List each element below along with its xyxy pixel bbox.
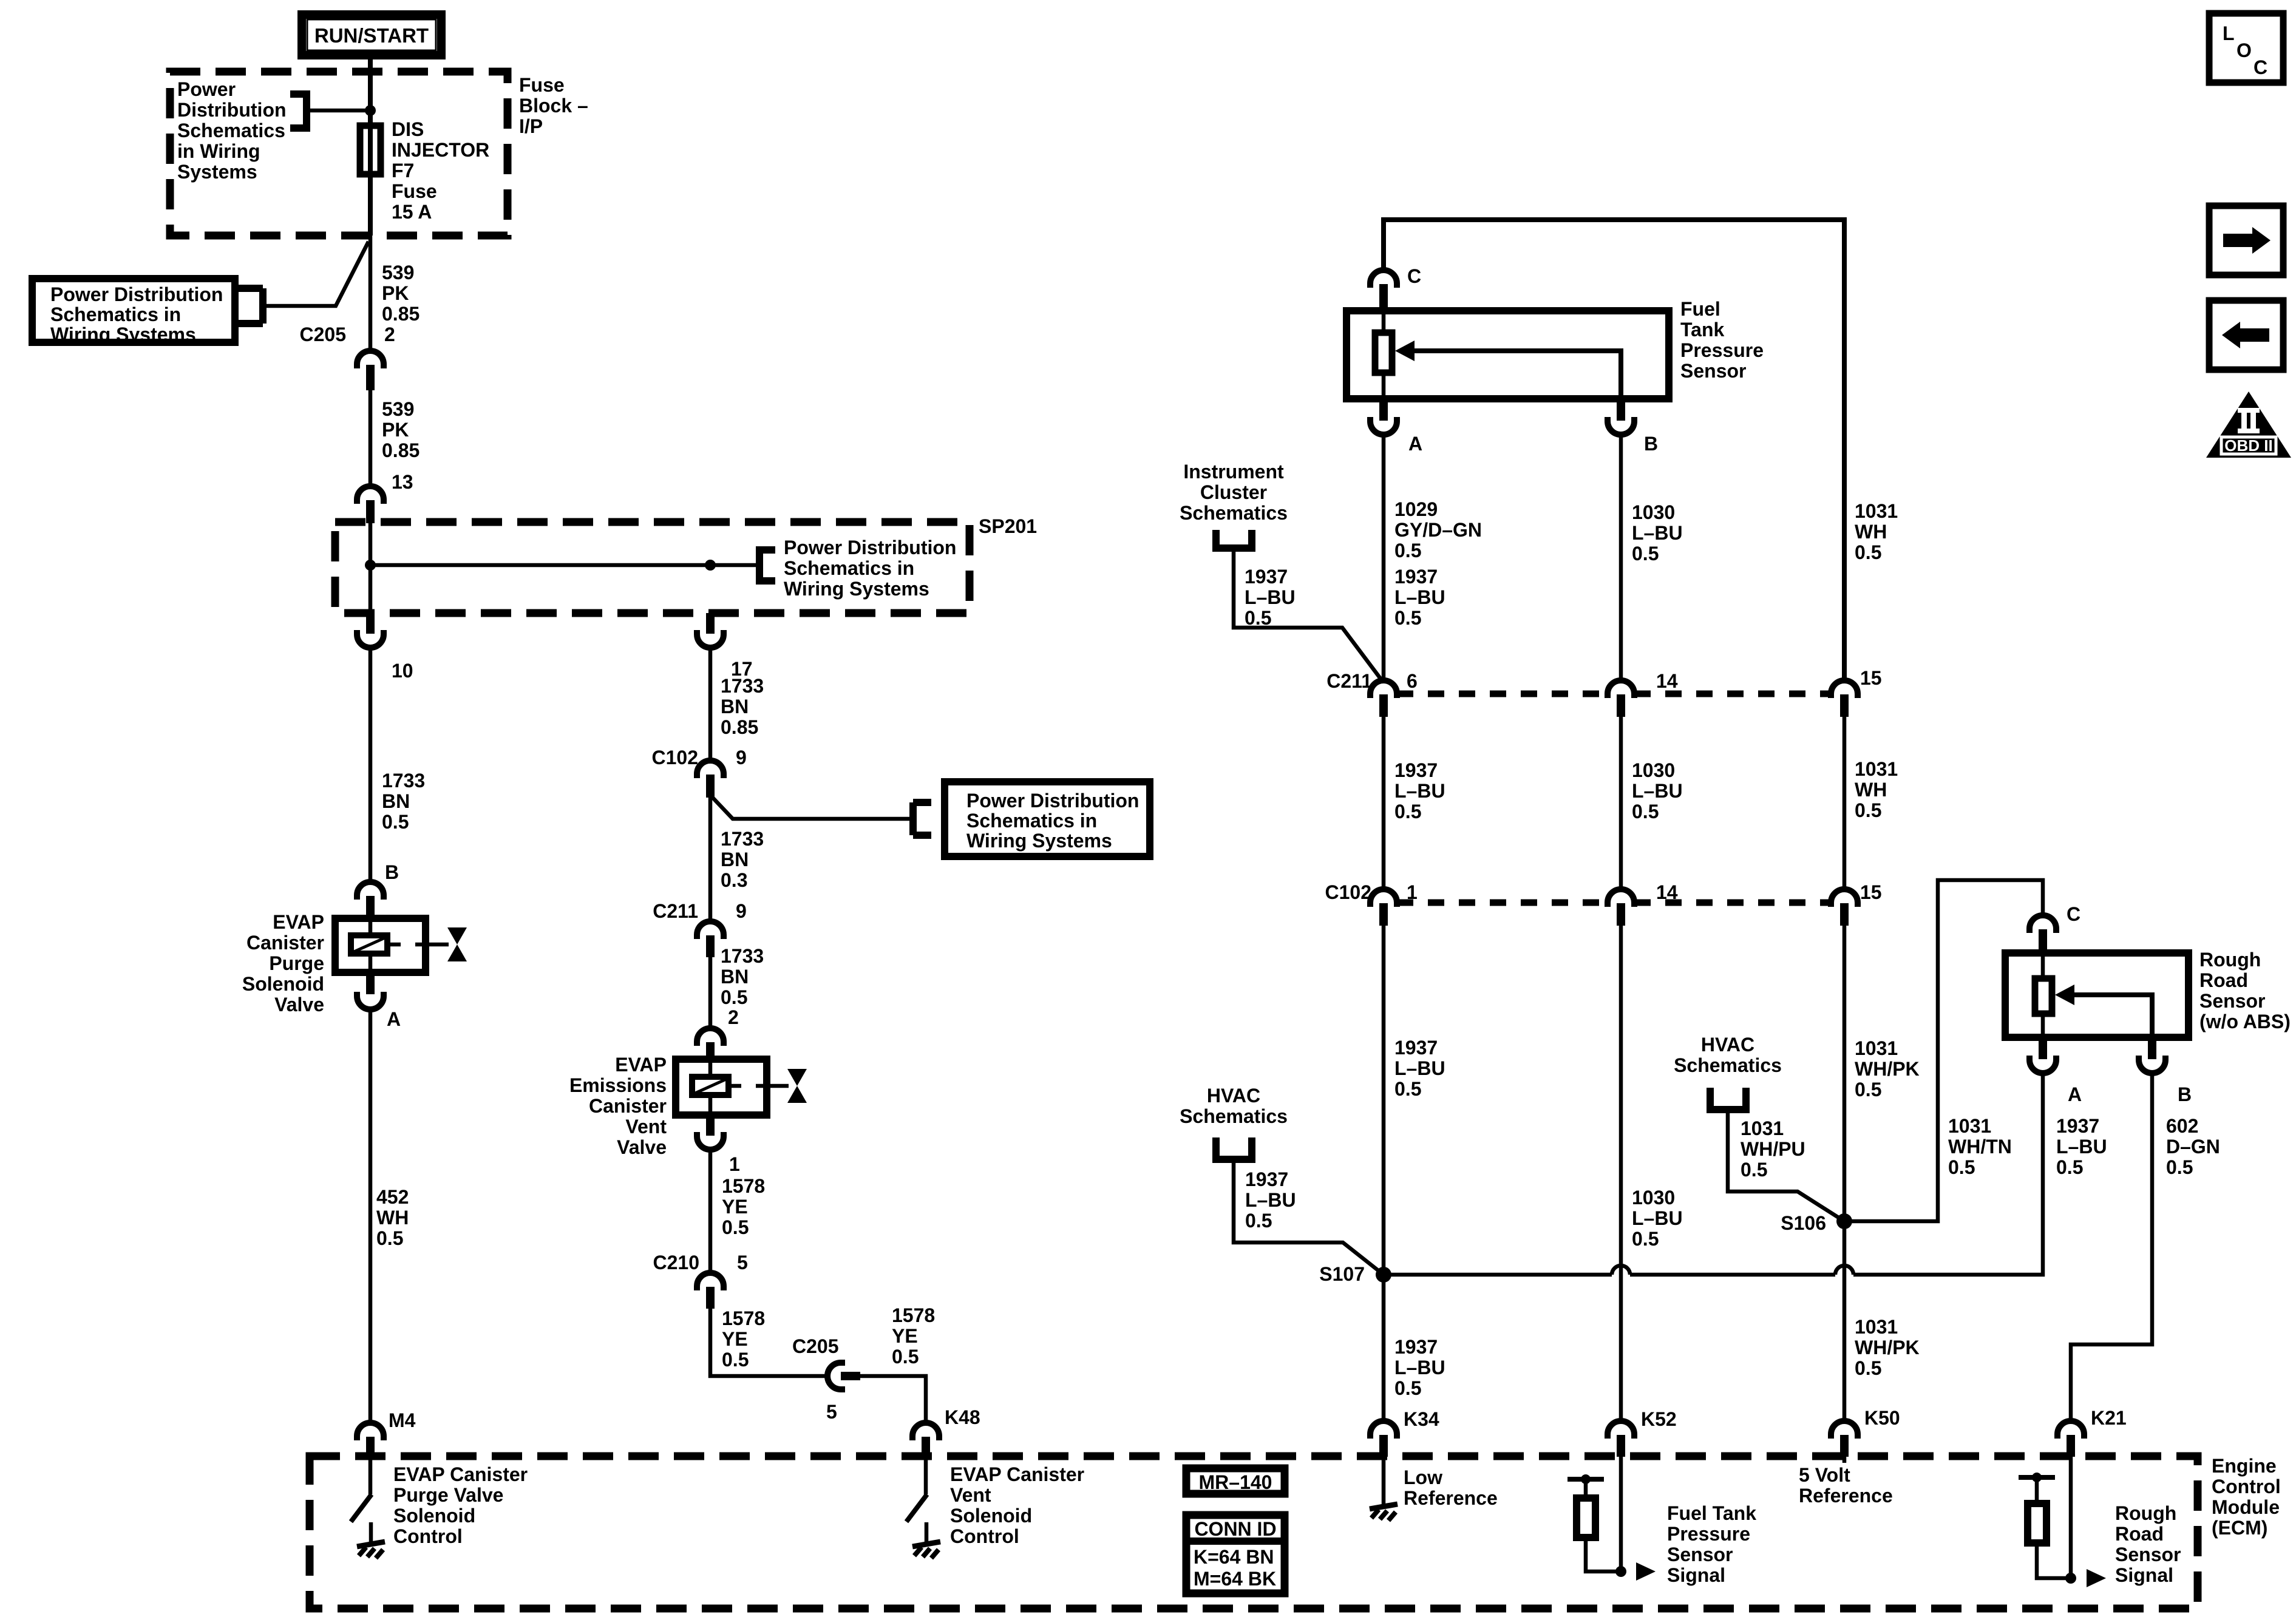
svg-text:0.85: 0.85 (382, 303, 419, 325)
svg-text:K21: K21 (2091, 1407, 2127, 1429)
svg-text:Low: Low (1404, 1466, 1442, 1488)
label 1937 L-BU 0.5 (below C211) (1394, 759, 1445, 822)
valve symbol (purge valve) (447, 927, 467, 961)
svg-text:MR–140: MR–140 (1199, 1471, 1272, 1493)
wire from RUN/START into Fuse Block (368, 55, 373, 126)
svg-text:K34: K34 (1404, 1408, 1439, 1430)
label Fuel Tank Pressure Sensor Signal (1667, 1502, 1756, 1586)
svg-text:Pressure: Pressure (1680, 339, 1764, 361)
svg-text:C211: C211 (1326, 670, 1372, 692)
svg-text:0.5: 0.5 (1855, 541, 1881, 563)
svg-text:0.85: 0.85 (382, 439, 419, 461)
connector C102 (middle column) (697, 761, 724, 798)
svg-text:GY/D–GN: GY/D–GN (1394, 519, 1482, 541)
connector pin 17 out of SP201 (middle column) (697, 613, 724, 648)
svg-text:1578: 1578 (892, 1304, 935, 1326)
svg-text:Vent: Vent (950, 1484, 991, 1506)
EVAP canister purge solenoid valve (335, 918, 449, 972)
label 1937 L-BU 0.5 (HVAC branch) (1245, 1168, 1296, 1232)
svg-text:Schematics: Schematics (1180, 1105, 1288, 1127)
wire into splice (369, 523, 373, 613)
valve symbol (vent valve) (787, 1069, 807, 1103)
svg-text:15 A: 15 A (392, 201, 432, 223)
svg-text:C210: C210 (653, 1252, 700, 1273)
svg-text:1733: 1733 (721, 828, 764, 850)
wire 1937 L-BU 0.5 from S107 to rough road sensor A (with hops) (1384, 1074, 2043, 1275)
label 1733 BN 0.3 (721, 828, 764, 891)
sensor rough road sensor (w/o ABS) (2005, 953, 2189, 1037)
wire 1578 YE 0.5 from C205 to K48 (860, 1376, 926, 1422)
label 1030 L-BU 0.5 (above C211) (1632, 501, 1683, 564)
svg-text:C: C (2067, 903, 2080, 925)
svg-text:HVAC: HVAC (1207, 1085, 1260, 1107)
label Rough Road Sensor (w/o ABS) (2199, 949, 2291, 1032)
svg-text:(w/o ABS): (w/o ABS) (2199, 1011, 2291, 1032)
svg-text:Schematics in: Schematics in (966, 810, 1097, 832)
svg-text:PK: PK (382, 419, 409, 441)
svg-text:Wiring Systems: Wiring Systems (50, 324, 196, 345)
svg-text:9: 9 (736, 747, 747, 768)
svg-text:WH: WH (1855, 779, 1887, 801)
node signal junction (K52) (1615, 1566, 1626, 1577)
svg-text:Sensor: Sensor (2199, 990, 2265, 1012)
svg-text:Canister: Canister (589, 1095, 667, 1117)
switch EVAP canister purge valve solenoid control (ECM driver) (351, 1457, 372, 1522)
svg-text:Instrument: Instrument (1183, 461, 1284, 483)
svg-text:Power Distribution: Power Distribution (50, 283, 223, 305)
wire 1937 L-BU 0.5 from S107 to K34 (1382, 1275, 1386, 1419)
svg-text:BN: BN (382, 790, 410, 812)
arrow fuel tank pressure sensor signal (1636, 1562, 1656, 1581)
wire 1030 L-BU 0.5 from C102 to K52 (1619, 922, 1623, 1419)
ground (ECM internal, purge driver) (357, 1522, 385, 1558)
connector pin M4 (ECM) (357, 1423, 384, 1457)
svg-text:Purge Valve: Purge Valve (393, 1484, 503, 1506)
svg-text:0.5: 0.5 (1632, 543, 1659, 564)
svg-text:0.5: 0.5 (2056, 1156, 2083, 1178)
label 1031 WH 0.5 (below C211) (1855, 758, 1898, 821)
svg-text:SP201: SP201 (979, 515, 1037, 537)
reference bracket (power distribution box) (238, 288, 263, 324)
svg-text:EVAP Canister: EVAP Canister (393, 1463, 528, 1485)
svg-text:PK: PK (382, 282, 409, 304)
svg-text:0.5: 0.5 (1245, 607, 1271, 629)
svg-text:B: B (1644, 433, 1658, 455)
svg-text:Valve: Valve (617, 1136, 667, 1158)
label 1030 L-BU 0.5 (below C102) (1632, 1187, 1683, 1250)
arrow rough road sensor signal (2087, 1569, 2106, 1587)
wire splice horizontal (370, 563, 759, 568)
svg-text:1937: 1937 (1394, 1336, 1438, 1358)
label 1031 WH/PU 0.5 (1741, 1117, 1805, 1181)
fuse block I/P dashed box (170, 72, 508, 236)
svg-text:1937: 1937 (1394, 1037, 1438, 1059)
svg-text:Schematics: Schematics (1180, 502, 1288, 524)
svg-text:Wiring Systems: Wiring Systems (784, 578, 929, 600)
engine control module ECM dashed box (310, 1456, 2198, 1609)
svg-text:A: A (2068, 1083, 2082, 1105)
wire diagonal branch to power distribution bracket (C102) (710, 795, 913, 819)
connector pin K50 (ECM) (1831, 1421, 1858, 1457)
connector pin C (FTPS) (1370, 270, 1397, 307)
svg-text:C205: C205 (792, 1335, 839, 1357)
label 539 PK 0.85 (lower) (382, 398, 419, 461)
node Power Distribution Schematics in Wiring Systems box (32, 279, 235, 345)
svg-text:2: 2 (384, 324, 395, 345)
connector pin 13 into SP201 (357, 486, 384, 523)
fuse F7 DIS INJECTOR 15A (360, 126, 381, 174)
svg-text:C: C (2254, 56, 2267, 78)
svg-text:1937: 1937 (1245, 1168, 1288, 1190)
svg-text:1733: 1733 (721, 675, 764, 697)
svg-text:A: A (387, 1008, 401, 1030)
svg-text:EVAP Canister: EVAP Canister (950, 1463, 1084, 1485)
label 1031 WH/TN 0.5 (1948, 1115, 2012, 1178)
svg-text:S106: S106 (1781, 1212, 1826, 1234)
connector C205 (column 1) (357, 351, 384, 390)
svg-text:F7: F7 (392, 160, 414, 181)
connector pin K34 (ECM) (1370, 1421, 1397, 1457)
svg-text:C205: C205 (300, 324, 347, 345)
resistor (ECM pull-up, fuel tank pressure) (1567, 1474, 1621, 1571)
node arrow right legend box (2209, 206, 2283, 275)
wire 1031 WH/PK 0.5 from S106 to K50 (1843, 1221, 1847, 1419)
svg-text:Schematics: Schematics (177, 120, 285, 141)
reference bracket instrument cluster (1216, 530, 1252, 548)
svg-text:RUN/START: RUN/START (314, 24, 429, 47)
svg-text:Fuel Tank: Fuel Tank (1667, 1502, 1756, 1524)
svg-text:Rough: Rough (2199, 949, 2261, 971)
svg-text:Schematics: Schematics (1674, 1054, 1782, 1076)
svg-text:Vent: Vent (625, 1116, 667, 1137)
connector C102 pin 1 glyph (1370, 889, 1397, 926)
label 5 Volt Reference (1799, 1464, 1893, 1507)
wire 1733 BN 0.3 from C102 to C211 (708, 795, 713, 921)
svg-text:2: 2 (728, 1006, 739, 1028)
label 1937 L-BU 0.5 (RRS A) (2056, 1115, 2107, 1178)
svg-text:Power: Power (177, 78, 236, 100)
wire 1937 L-BU 0.5 from instrument cluster to C211 (1234, 548, 1382, 681)
svg-text:1937: 1937 (1245, 566, 1288, 588)
svg-text:EVAP: EVAP (615, 1054, 667, 1076)
svg-text:B: B (2178, 1083, 2192, 1105)
connector pin A (purge valve) (357, 972, 384, 1009)
wire diagonal branch to power distribution bracket (263, 242, 369, 306)
svg-text:1937: 1937 (1394, 759, 1438, 781)
svg-text:in Wiring: in Wiring (177, 140, 260, 162)
svg-text:Systems: Systems (177, 161, 257, 183)
svg-text:1937: 1937 (2056, 1115, 2099, 1137)
wire 1031 WH/PU 0.5 from HVAC to S106 (1728, 1110, 1844, 1221)
wire from S106 to rough road sensor C (1844, 880, 2043, 1221)
svg-text:0.5: 0.5 (721, 986, 747, 1008)
svg-text:L–BU: L–BU (1632, 522, 1683, 544)
svg-text:0.5: 0.5 (1855, 1079, 1881, 1100)
node arrow left legend box (2209, 300, 2283, 370)
svg-text:1: 1 (729, 1153, 740, 1175)
reference bracket HVAC left (1216, 1137, 1252, 1159)
label 1030 L-BU 0.5 (below C211) (1632, 759, 1683, 822)
label Engine Control Module (ECM) (2212, 1455, 2281, 1539)
svg-text:L–BU: L–BU (1245, 586, 1296, 608)
wire 602 D-GN 0.5 from RRS B to K21 (2071, 1074, 2152, 1419)
svg-text:C102: C102 (1325, 881, 1372, 903)
connector pin A (rough road sensor) (2029, 1037, 2056, 1073)
svg-text:0.5: 0.5 (1948, 1156, 1975, 1178)
svg-text:L–BU: L–BU (1632, 1207, 1683, 1229)
svg-text:1031: 1031 (1948, 1115, 1991, 1137)
connector C102 pin 15 glyph (1831, 889, 1858, 926)
label 1733 BN 0.5 (382, 770, 425, 833)
wire from junction through fuse to fuse block edge (368, 110, 373, 236)
connector C205 (horizontal) (827, 1363, 860, 1389)
svg-text:Engine: Engine (2212, 1455, 2277, 1477)
label Low Reference (1404, 1466, 1498, 1509)
svg-text:L–BU: L–BU (1394, 586, 1445, 608)
svg-text:Solenoid: Solenoid (242, 973, 324, 995)
node signal junction (K21) (2065, 1573, 2076, 1584)
svg-text:L: L (2223, 22, 2235, 44)
svg-text:Schematics in: Schematics in (784, 557, 914, 579)
label 1733 BN 0.85 (721, 675, 764, 738)
svg-text:WH/TN: WH/TN (1948, 1136, 2012, 1158)
reference bracket HVAC right (1710, 1088, 1746, 1110)
svg-text:Tank: Tank (1680, 319, 1725, 341)
svg-text:M4: M4 (389, 1409, 416, 1431)
label Power Distribution Schematics in Wiring Systems (fuse block) (177, 78, 287, 183)
svg-text:L–BU: L–BU (1394, 1057, 1445, 1079)
label 1578 YE 0.5 (left of C205) (722, 1307, 765, 1371)
label HVAC Schematics (left) (1180, 1085, 1288, 1127)
wire 1733 BN 0.5 from C211 to vent valve (708, 957, 713, 1027)
svg-text:0.5: 0.5 (376, 1227, 403, 1249)
svg-text:Purge: Purge (269, 952, 324, 974)
svg-text:BN: BN (721, 696, 749, 717)
node junction above fuse F7 (365, 105, 376, 116)
connector pin K52 (ECM) (1608, 1421, 1634, 1457)
svg-text:0.5: 0.5 (382, 811, 409, 833)
node CONN ID table (1183, 1515, 1288, 1593)
connector pin B (purge valve) (357, 882, 384, 917)
label 1031 WH/PK 0.5 (below S106) (1855, 1316, 1920, 1379)
svg-text:WH/PK: WH/PK (1855, 1058, 1920, 1080)
wire 1937 L-BU 0.5 from C102 to S107 (1382, 922, 1386, 1275)
svg-text:Emissions: Emissions (569, 1074, 667, 1096)
svg-text:C211: C211 (653, 900, 698, 922)
svg-text:1030: 1030 (1632, 1187, 1675, 1209)
svg-text:Fuel: Fuel (1680, 298, 1720, 320)
svg-text:6: 6 (1407, 670, 1418, 692)
connector pin K48 (ECM) (912, 1423, 939, 1457)
svg-text:C102: C102 (652, 747, 699, 768)
svg-text:Control: Control (393, 1525, 463, 1547)
svg-text:0.85: 0.85 (721, 716, 758, 738)
svg-text:15: 15 (1860, 667, 1882, 689)
svg-text:Schematics in: Schematics in (50, 303, 181, 325)
ground (ECM internal, vent driver) (912, 1522, 940, 1558)
label Instrument Cluster Schematics (1180, 461, 1288, 524)
svg-text:L–BU: L–BU (1632, 780, 1683, 802)
svg-text:Fuse: Fuse (392, 180, 437, 202)
svg-text:10: 10 (392, 660, 413, 682)
wire K50 into ECM (5 volt reference) (1843, 1457, 1847, 1463)
svg-text:1733: 1733 (721, 945, 764, 967)
node Power Distribution Schematics in Wiring Systems box (right) (945, 782, 1150, 856)
svg-text:WH: WH (376, 1207, 409, 1229)
label 539 PK 0.85 (upper) (382, 262, 419, 325)
connector pin 10 out of SP201 (357, 613, 384, 648)
svg-text:1031: 1031 (1855, 1316, 1898, 1338)
sensor fuel tank pressure sensor (1347, 311, 1669, 399)
svg-text:0.3: 0.3 (721, 869, 747, 891)
label Fuel Tank Pressure Sensor (1680, 298, 1764, 382)
EVAP emissions canister vent valve (676, 1059, 789, 1115)
node OBD II symbol (2206, 392, 2291, 458)
svg-text:0.5: 0.5 (1394, 1377, 1421, 1399)
svg-text:Sensor: Sensor (1667, 1544, 1733, 1565)
svg-text:0.5: 0.5 (1245, 1210, 1272, 1232)
reference bracket SP201 power distribution (759, 550, 775, 581)
svg-text:Valve: Valve (274, 994, 324, 1015)
svg-text:1578: 1578 (722, 1307, 765, 1329)
svg-text:I/P: I/P (519, 115, 543, 137)
wire 1029 GY/D-GN 0.5 from FTPS A to C211 (1382, 435, 1386, 679)
svg-text:YE: YE (722, 1328, 748, 1350)
svg-text:DIS: DIS (392, 118, 424, 140)
svg-text:1937: 1937 (1394, 566, 1438, 588)
svg-text:D–GN: D–GN (2166, 1136, 2220, 1158)
connector pin B (rough road sensor) (2139, 1037, 2165, 1073)
svg-text:Power Distribution: Power Distribution (784, 537, 956, 558)
node splice junction dot (right) (705, 560, 716, 571)
svg-text:Sensor: Sensor (1680, 360, 1746, 382)
svg-text:539: 539 (382, 262, 414, 283)
wire 1030 L-BU 0.5 from C211 to C102 (1619, 717, 1623, 888)
splice S106 (1836, 1213, 1852, 1229)
label 1937 L-BU 0.5 (above C211) (1394, 566, 1445, 629)
connector C210 (697, 1273, 724, 1309)
svg-text:L–BU: L–BU (2056, 1136, 2107, 1158)
connector C102 pin 14 glyph (1608, 889, 1634, 926)
svg-text:BN: BN (721, 966, 749, 988)
connector C211 dashed line (1397, 691, 1830, 697)
label 602 D-GN 0.5 (RRS B) (2166, 1115, 2220, 1178)
svg-text:B: B (385, 861, 399, 883)
svg-text:M=64 BK: M=64 BK (1194, 1568, 1276, 1590)
svg-text:Canister: Canister (246, 932, 324, 954)
svg-text:Reference: Reference (1404, 1487, 1498, 1509)
svg-text:1031: 1031 (1855, 758, 1898, 780)
svg-text:0.5: 0.5 (1394, 540, 1421, 561)
svg-text:0.5: 0.5 (1632, 801, 1659, 822)
connector C211 pin 14 glyph (1608, 680, 1634, 717)
svg-text:5: 5 (826, 1401, 837, 1423)
connector pin K21 (ECM) (2057, 1421, 2084, 1457)
wire 1733 BN 0.85 from SP201 to C102 (708, 648, 713, 759)
svg-text:0.5: 0.5 (1394, 607, 1421, 629)
wire from bracket to junction (307, 109, 369, 113)
svg-text:1030: 1030 (1632, 759, 1675, 781)
svg-text:EVAP: EVAP (273, 911, 324, 933)
svg-text:Signal: Signal (2115, 1564, 2173, 1586)
label 1937 L-BU 0.5 (instrument cluster) (1245, 566, 1296, 629)
wire K52 to signal junction (1619, 1457, 1623, 1571)
label EVAP Emissions Canister Vent Valve (569, 1054, 667, 1158)
svg-text:Sensor: Sensor (2115, 1544, 2181, 1565)
reference bracket to power distribution (fuse block) (290, 94, 307, 128)
svg-text:O: O (2237, 39, 2252, 61)
wire 1030 L-BU 0.5 from FTPS B to C211 (1619, 435, 1623, 679)
svg-text:Fuse: Fuse (519, 74, 565, 96)
wire 539 PK 0.85 from C205 to C200 pin 13 (369, 390, 373, 486)
svg-text:Block –: Block – (519, 95, 588, 117)
svg-text:0.5: 0.5 (2166, 1156, 2193, 1178)
svg-text:Solenoid: Solenoid (393, 1505, 475, 1527)
svg-text:WH/PK: WH/PK (1855, 1337, 1920, 1358)
svg-text:K48: K48 (945, 1406, 980, 1428)
label EVAP Canister Purge Valve Solenoid Control (393, 1463, 528, 1547)
svg-text:1031: 1031 (1855, 500, 1898, 522)
label 1578 YE 0.5 (upper) (722, 1175, 765, 1238)
svg-text:YE: YE (722, 1196, 748, 1218)
svg-text:Module: Module (2212, 1496, 2280, 1518)
label 452 WH 0.5 (376, 1186, 409, 1249)
svg-text:0.5: 0.5 (1632, 1228, 1659, 1250)
wire 1578 YE 0.5 from C210 to C205 (710, 1309, 825, 1376)
svg-text:Control: Control (2212, 1476, 2281, 1497)
svg-text:(ECM): (ECM) (2212, 1517, 2267, 1539)
svg-text:Control: Control (950, 1525, 1019, 1547)
svg-text:WH/PU: WH/PU (1741, 1138, 1805, 1160)
svg-text:1029: 1029 (1394, 498, 1438, 520)
svg-text:OBD II: OBD II (2224, 436, 2272, 455)
connector pin 1 (vent valve) (697, 1115, 724, 1150)
svg-text:A: A (1408, 433, 1422, 455)
svg-text:HVAC: HVAC (1701, 1034, 1754, 1056)
svg-text:5: 5 (737, 1252, 748, 1273)
svg-text:539: 539 (382, 398, 414, 420)
label 1031 WH 0.5 (above C211) (1855, 500, 1898, 563)
svg-text:WH: WH (1855, 521, 1887, 543)
wire 1733 BN 0.5 from SP201 to purge valve B (369, 648, 373, 881)
svg-text:5 Volt: 5 Volt (1799, 1464, 1850, 1486)
svg-text:Reference: Reference (1799, 1485, 1893, 1507)
splice S107 (1376, 1267, 1391, 1283)
resistor (ECM pull-up, rough road) (2019, 1473, 2071, 1578)
svg-text:1031: 1031 (1855, 1037, 1898, 1059)
wire 1937 L-BU 0.5 from C211 to C102 (1382, 717, 1386, 888)
label Rough Road Sensor Signal (2115, 1502, 2181, 1586)
svg-text:0.5: 0.5 (1394, 801, 1421, 822)
wire K21 to signal junction (2069, 1457, 2073, 1578)
svg-text:Power Distribution: Power Distribution (966, 790, 1139, 812)
svg-text:L–BU: L–BU (1394, 780, 1445, 802)
svg-text:1030: 1030 (1632, 501, 1675, 523)
wire from fuse block to connector C205 (369, 236, 373, 350)
connector C102 dashed line (1397, 900, 1830, 906)
svg-text:YE: YE (892, 1325, 918, 1347)
label 1578 YE 0.5 (right of C205) (892, 1304, 935, 1368)
connector pin A (FTPS) (1370, 399, 1397, 435)
label 1937 L-BU 0.5 (below C102) (1394, 1037, 1445, 1100)
wire K34 to internal ground (1382, 1457, 1386, 1507)
svg-text:1733: 1733 (382, 770, 425, 792)
svg-text:Wiring Systems: Wiring Systems (966, 830, 1112, 852)
node LOC legend box (2209, 13, 2283, 83)
svg-text:L–BU: L–BU (1394, 1357, 1445, 1378)
label 1029 GY/D-GN 0.5 (1394, 498, 1482, 561)
label Power Distribution Schematics in Wiring Systems (SP201) (784, 537, 956, 600)
